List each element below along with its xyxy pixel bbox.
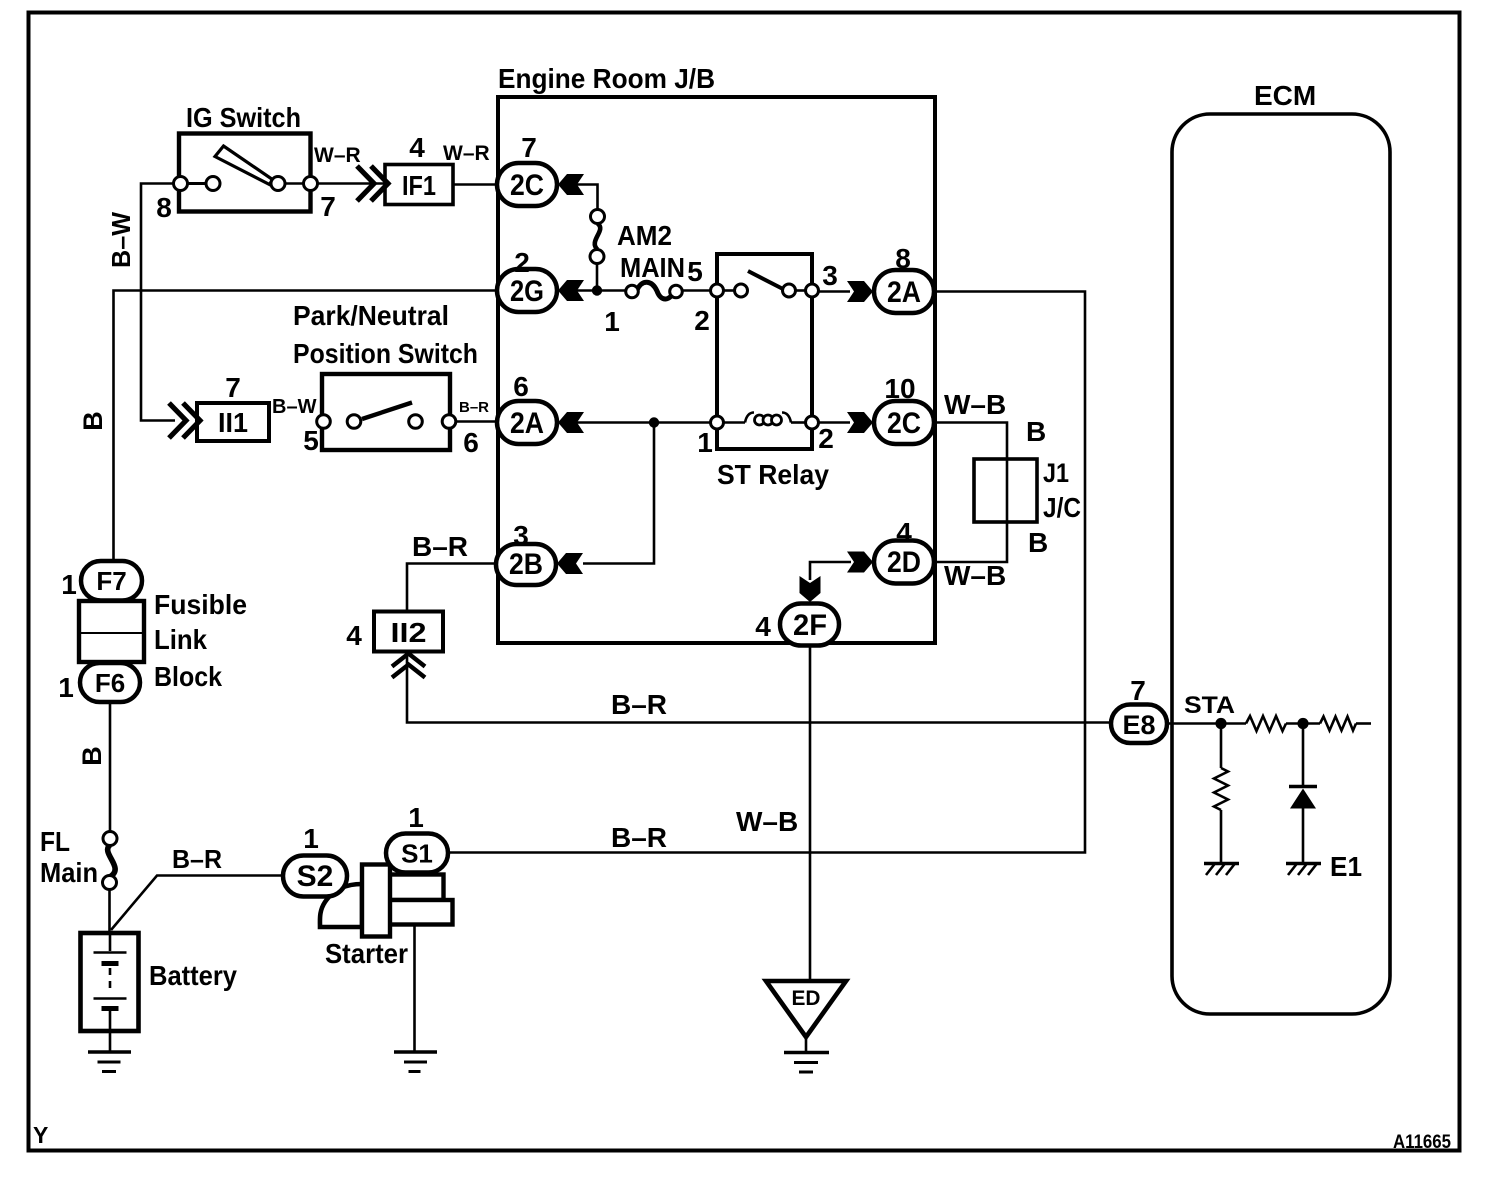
svg-text:B–R: B–R xyxy=(172,844,222,874)
svg-text:4: 4 xyxy=(896,517,912,548)
svg-text:4: 4 xyxy=(409,132,425,163)
svg-text:ST Relay: ST Relay xyxy=(717,459,829,490)
svg-text:1: 1 xyxy=(604,306,620,337)
svg-text:B: B xyxy=(77,746,107,766)
svg-text:10: 10 xyxy=(884,373,915,404)
svg-text:2C: 2C xyxy=(887,407,921,440)
svg-text:Block: Block xyxy=(154,661,222,692)
svg-text:3: 3 xyxy=(822,260,838,291)
svg-text:ED: ED xyxy=(792,987,821,1010)
svg-text:Fusible: Fusible xyxy=(154,589,247,620)
svg-text:FL: FL xyxy=(40,826,70,857)
svg-text:F6: F6 xyxy=(95,668,125,698)
svg-text:2D: 2D xyxy=(887,546,921,579)
svg-text:2A: 2A xyxy=(887,276,921,309)
svg-text:2F: 2F xyxy=(793,609,827,642)
svg-text:3: 3 xyxy=(513,520,529,551)
svg-text:Y: Y xyxy=(33,1122,48,1148)
svg-text:E8: E8 xyxy=(1123,710,1156,740)
svg-text:F7: F7 xyxy=(96,566,126,596)
svg-text:W–R: W–R xyxy=(443,142,490,165)
svg-text:2: 2 xyxy=(694,305,710,336)
svg-text:B: B xyxy=(1028,527,1048,558)
svg-text:1: 1 xyxy=(408,802,424,833)
svg-text:2C: 2C xyxy=(510,169,544,202)
svg-text:Main: Main xyxy=(40,857,98,888)
svg-text:W–B: W–B xyxy=(944,560,1006,591)
svg-text:1: 1 xyxy=(697,427,713,458)
svg-text:7: 7 xyxy=(1130,675,1146,706)
svg-text:B–R: B–R xyxy=(459,399,489,416)
svg-text:II1: II1 xyxy=(218,407,248,438)
svg-text:7: 7 xyxy=(320,191,336,222)
svg-text:6: 6 xyxy=(463,427,479,458)
svg-text:W–R: W–R xyxy=(314,144,361,167)
svg-text:MAIN: MAIN xyxy=(620,252,685,283)
svg-text:2A: 2A xyxy=(510,407,544,440)
svg-text:2G: 2G xyxy=(510,275,544,308)
svg-text:IG Switch: IG Switch xyxy=(186,102,301,133)
svg-text:STA: STA xyxy=(1184,692,1235,719)
svg-text:B–W: B–W xyxy=(272,396,317,418)
svg-text:4: 4 xyxy=(755,611,771,642)
svg-text:2B: 2B xyxy=(509,548,543,581)
svg-text:2: 2 xyxy=(818,423,834,454)
svg-text:Link: Link xyxy=(154,624,207,655)
svg-text:A11665: A11665 xyxy=(1393,1132,1451,1153)
svg-text:1: 1 xyxy=(58,672,74,703)
svg-text:1: 1 xyxy=(303,823,319,854)
svg-text:B: B xyxy=(1026,416,1046,447)
svg-text:ECM: ECM xyxy=(1254,80,1316,111)
svg-text:S2: S2 xyxy=(297,860,334,893)
svg-text:4: 4 xyxy=(346,620,362,651)
svg-text:Battery: Battery xyxy=(149,960,237,991)
svg-text:B: B xyxy=(78,411,108,431)
svg-text:Starter: Starter xyxy=(325,938,408,969)
svg-text:W–B: W–B xyxy=(736,806,798,837)
svg-text:6: 6 xyxy=(513,371,529,402)
svg-text:7: 7 xyxy=(225,372,241,403)
svg-text:B–R: B–R xyxy=(611,689,667,720)
svg-text:J/C: J/C xyxy=(1043,492,1081,523)
svg-text:Position Switch: Position Switch xyxy=(293,338,478,369)
svg-text:B–R: B–R xyxy=(412,531,468,562)
svg-text:B–R: B–R xyxy=(611,822,667,853)
svg-text:7: 7 xyxy=(521,132,537,163)
svg-text:B–W: B–W xyxy=(106,212,136,268)
svg-text:S1: S1 xyxy=(401,839,433,869)
svg-text:2: 2 xyxy=(514,247,530,278)
svg-text:IF1: IF1 xyxy=(402,170,436,201)
svg-text:AM2: AM2 xyxy=(617,220,672,251)
svg-text:E1: E1 xyxy=(1330,851,1362,882)
svg-text:J1: J1 xyxy=(1043,458,1069,488)
svg-text:5: 5 xyxy=(687,256,703,287)
svg-text:5: 5 xyxy=(303,425,319,456)
svg-text:II2: II2 xyxy=(391,617,427,648)
svg-text:8: 8 xyxy=(895,243,911,274)
svg-text:Engine Room J/B: Engine Room J/B xyxy=(498,63,715,94)
svg-text:W–B: W–B xyxy=(944,389,1006,420)
svg-text:Park/Neutral: Park/Neutral xyxy=(293,300,449,331)
svg-text:8: 8 xyxy=(156,192,172,223)
svg-text:1: 1 xyxy=(61,569,77,600)
